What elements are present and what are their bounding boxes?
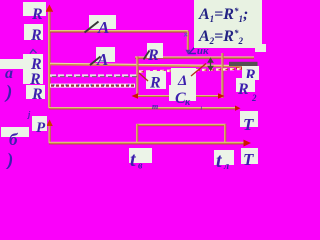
formula box	[194, 0, 262, 48]
svg-text:2: 2	[251, 93, 257, 103]
caret mark above R3	[30, 50, 37, 54]
wire: bottom-left short vertical with arrow (P)	[48, 123, 50, 143]
arrow at top of P vertical	[46, 120, 52, 127]
wire: bottom horizontal line y=143	[49, 142, 245, 145]
svg-text:а: а	[5, 65, 13, 82]
box R top middle	[147, 43, 163, 58]
svg-text:Р: Р	[36, 120, 46, 136]
box R1	[23, 2, 46, 16]
svg-text:R: R	[31, 6, 43, 23]
svg-text:А: А	[97, 18, 109, 37]
svg-text:Т: Т	[243, 150, 254, 169]
arrow at bottom of drop pointing down	[185, 50, 190, 54]
svg-text:R: R	[237, 81, 249, 98]
wire: small rectangle top line y=125	[137, 124, 226, 126]
svg-text:₁: ₁	[200, 101, 203, 110]
wire: middle-left vertical (x=137)	[136, 56, 138, 97]
box label a	[0, 59, 27, 69]
left red arrowhead of measured line	[132, 93, 139, 98]
box A1	[89, 15, 116, 29]
switch stroke Delta	[191, 64, 206, 77]
svg-text:R: R	[30, 27, 42, 44]
box R2	[24, 24, 43, 40]
wire: horizontal line y=108	[49, 107, 237, 109]
box R4	[23, 69, 43, 84]
wire: horizontal line 1 (y=31)	[50, 30, 188, 33]
svg-text:Т: Т	[243, 115, 254, 134]
dashed red text-like row (y=85.5)	[50, 84, 135, 88]
small white patch right of formula box	[255, 44, 266, 52]
box T bottom right	[241, 148, 258, 164]
red arrowhead end of y=108 line	[235, 106, 241, 111]
box R2 right	[236, 78, 255, 92]
dashed line (yellow/white) inside middle rectangle y=70	[139, 69, 247, 72]
svg-text:R: R	[149, 75, 161, 92]
box label b	[1, 127, 29, 137]
red arrowhead end of bottom line	[244, 140, 252, 147]
wire: small rectangle left vertical	[136, 124, 138, 144]
svg-text:л: л	[223, 161, 229, 169]
wire: horizontal line 3 (y=57.5, x135-254)	[135, 56, 254, 58]
right red arrowhead of measured line	[218, 93, 225, 98]
measurement double arrow	[208, 58, 213, 70]
wire: horizontal line 2 (y=64)	[50, 63, 257, 68]
box R mid	[146, 71, 166, 89]
box Delta	[171, 68, 196, 88]
switch stroke R top middle	[144, 51, 150, 60]
wire: middle-right vertical (x=222)	[221, 53, 223, 98]
box T middle right	[240, 111, 258, 127]
svg-text:): )	[4, 82, 12, 103]
box R5	[26, 85, 45, 99]
box t_l bottom	[214, 150, 234, 165]
junction mark at line1 drop	[184, 33, 187, 37]
dark gray bar over right end of line 2	[229, 62, 258, 66]
wire: left vertical bus	[48, 11, 51, 108]
box A2	[96, 47, 115, 62]
dashed gray line (y=76) left section	[50, 74, 137, 76]
arrow at top of left bus	[46, 5, 54, 12]
svg-text:R: R	[31, 86, 43, 103]
red dashes below dark bar	[236, 67, 240, 69]
switch stroke A1	[85, 22, 99, 33]
box Sk	[169, 85, 196, 101]
box R right	[242, 66, 259, 80]
svg-text:т: т	[152, 102, 158, 111]
svg-text:): )	[5, 150, 13, 169]
wire: measured line with arrows (y=96)	[135, 95, 221, 97]
box R3	[23, 54, 43, 69]
svg-text:R: R	[147, 47, 159, 64]
wire: right-end vertical drop of line 1	[187, 31, 189, 51]
svg-text:А: А	[96, 50, 108, 69]
box P	[32, 116, 47, 131]
wire: small rectangle right vertical	[224, 124, 226, 144]
switch stroke R mid	[139, 73, 148, 81]
switch stroke A2	[90, 57, 101, 66]
svg-text:в: в	[138, 161, 143, 170]
box t_v bottom left	[129, 148, 152, 163]
